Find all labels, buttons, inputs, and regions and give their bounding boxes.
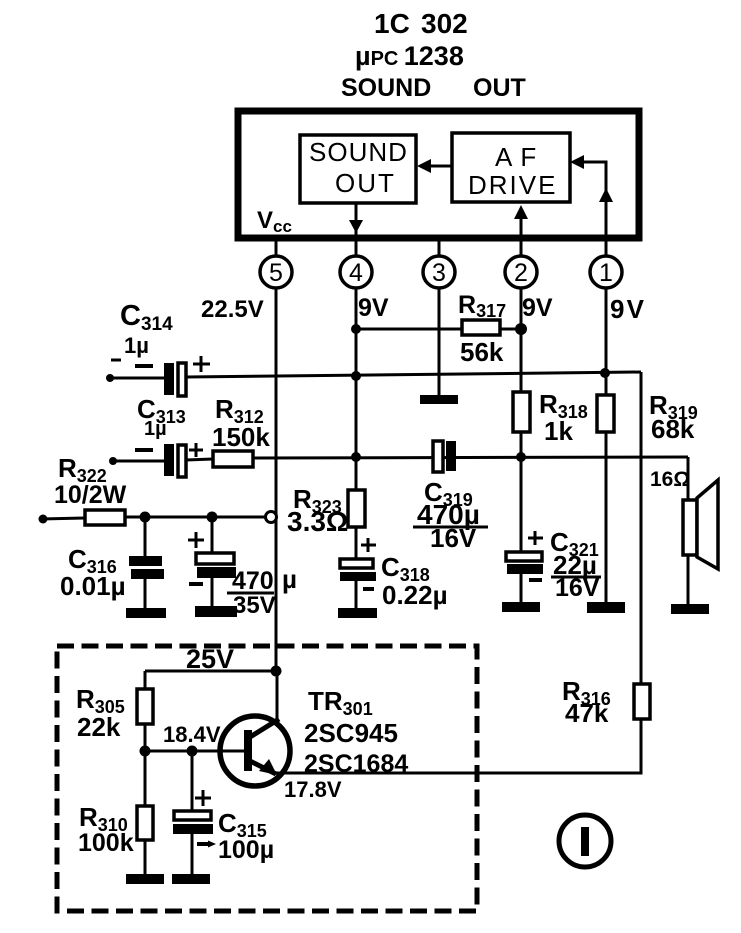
resistor R319	[597, 395, 614, 432]
resistor R312	[213, 451, 253, 467]
svg-text:25V: 25V	[186, 644, 234, 674]
svg-text:17.8V: 17.8V	[284, 777, 342, 802]
junction base node	[140, 746, 151, 757]
wire speaker drop	[687, 457, 690, 500]
wire C313 R312 line	[111, 460, 164, 463]
resistor R305	[137, 689, 153, 724]
capacitor C318	[340, 527, 376, 608]
resistor R317	[462, 320, 500, 335]
wire pin2 vertical	[520, 288, 523, 553]
capacitor C313	[135, 443, 203, 477]
wire pin4 vertical	[355, 288, 358, 491]
ground pin1 line	[587, 602, 625, 613]
svg-text:SOUND: SOUND	[309, 137, 408, 167]
svg-text:18.4V: 18.4V	[163, 722, 221, 747]
pin 3	[423, 256, 455, 288]
resistor R323	[348, 490, 365, 527]
svg-text:1k: 1k	[544, 416, 573, 446]
wire pin5 stub	[275, 238, 278, 256]
svg-text:100µ: 100µ	[218, 836, 274, 864]
svg-text:1µ: 1µ	[124, 333, 149, 358]
svg-text:16V: 16V	[430, 523, 477, 553]
junction pin4/R317	[351, 324, 361, 334]
pin 4	[340, 256, 372, 288]
wire pin1 feedback into AF DRIVE	[570, 155, 613, 256]
junction pin2/R317	[515, 323, 527, 335]
wire speaker to ground	[687, 555, 690, 604]
svg-text:68k: 68k	[651, 414, 695, 444]
SOUND OUT block	[300, 135, 416, 203]
pin 2	[505, 256, 537, 288]
svg-text:OUT: OUT	[335, 168, 396, 198]
junction R312 line/pin2	[516, 452, 526, 462]
ground C318	[338, 608, 377, 618]
wire collector up	[276, 671, 279, 722]
svg-text:0.01µ: 0.01µ	[60, 571, 126, 601]
svg-text:4: 4	[349, 259, 363, 287]
wire C314 output line	[107, 377, 164, 380]
wire base line	[145, 750, 222, 753]
AF DRIVE block	[452, 133, 570, 202]
dashed enclosure box	[57, 646, 477, 911]
wire 25V line	[145, 670, 276, 673]
svg-text:16Ω: 16Ω	[650, 468, 690, 491]
svg-text:9 V: 9 V	[610, 294, 645, 324]
svg-text:1: 1	[599, 259, 613, 287]
wire R322 input line	[39, 515, 268, 524]
pin 5	[260, 256, 292, 288]
svg-text:2SC1684: 2SC1684	[304, 750, 408, 778]
IC block U301 outline	[238, 111, 639, 238]
wire R305 branch vertical	[144, 671, 147, 874]
svg-text:1µ: 1µ	[144, 418, 167, 440]
svg-text:0.22µ: 0.22µ	[382, 580, 448, 610]
wire pin2 stub with up arrow	[514, 205, 528, 256]
ground C321	[502, 602, 540, 612]
junction R322 line/470u cap	[207, 512, 218, 523]
capacitor 470u/35V	[188, 517, 236, 606]
junction R322 line/C316	[140, 512, 151, 523]
junction C315 node	[187, 746, 198, 757]
svg-text:3.3Ω: 3.3Ω	[287, 506, 348, 537]
wire pin3 stub	[438, 238, 441, 256]
svg-text:22k: 22k	[77, 712, 121, 742]
wire pin5 vertical	[275, 288, 278, 671]
svg-text:µ: µ	[282, 564, 297, 594]
resistor R316	[634, 684, 650, 719]
ground C316	[126, 608, 166, 618]
page marker circled 1	[559, 815, 611, 867]
svg-text:5: 5	[269, 259, 283, 287]
capacitor C316	[129, 517, 164, 608]
svg-text:9V: 9V	[522, 294, 553, 322]
junction collector node	[271, 666, 282, 677]
ground speaker	[671, 604, 709, 614]
svg-text:470: 470	[232, 567, 274, 595]
speaker LS301	[683, 480, 718, 569]
svg-text:AF: AF	[495, 142, 544, 172]
ground pin3	[420, 395, 458, 404]
svg-text:3: 3	[432, 259, 446, 287]
ground R310	[126, 874, 164, 884]
wire pin1 vertical	[605, 288, 608, 604]
wire R317 link pin4 to pin2	[356, 328, 521, 331]
capacitor C315	[173, 751, 216, 874]
resistor R322	[85, 510, 125, 525]
svg-text:16V: 16V	[555, 574, 600, 602]
svg-text:9V: 9V	[358, 294, 389, 322]
pin 1	[590, 256, 622, 288]
label 470/35V	[227, 564, 297, 619]
junction R312 line/pin4	[351, 452, 361, 462]
svg-text:2SC945: 2SC945	[304, 718, 398, 748]
svg-text:56k: 56k	[460, 337, 504, 367]
svg-text:10/2W: 10/2W	[54, 481, 127, 509]
capacitor C321	[506, 531, 543, 602]
ground C315	[172, 874, 210, 884]
capacitor C314	[111, 356, 210, 396]
svg-text:35V: 35V	[233, 592, 276, 619]
svg-text:2: 2	[514, 259, 528, 287]
junction C314 line/pin1	[600, 368, 610, 378]
wire R316 to emitter	[276, 719, 641, 773]
svg-text:22.5V: 22.5V	[201, 296, 264, 323]
svg-text:OUT: OUT	[473, 74, 526, 102]
wire pin4 stub with down arrow	[349, 203, 363, 256]
svg-text:DRIVE: DRIVE	[468, 170, 557, 200]
wire pin3 vertical	[438, 288, 441, 398]
resistor R318	[513, 392, 530, 432]
wire feedback to R316	[640, 372, 643, 684]
node open circle at pin5 line	[266, 512, 277, 523]
ground 470u cap	[195, 606, 237, 617]
capacitor C319	[433, 441, 456, 472]
junction C314 line/pin4	[351, 371, 361, 381]
svg-text:150k: 150k	[212, 422, 270, 452]
resistor R310	[137, 806, 153, 840]
transistor TR301	[220, 716, 290, 786]
svg-text:100k: 100k	[78, 829, 134, 857]
svg-text:1C 302: 1C 302	[374, 8, 468, 39]
arrow AF DRIVE to SOUND OUT	[417, 159, 452, 173]
svg-text:47k: 47k	[565, 698, 609, 728]
svg-text:SOUND: SOUND	[341, 74, 431, 102]
